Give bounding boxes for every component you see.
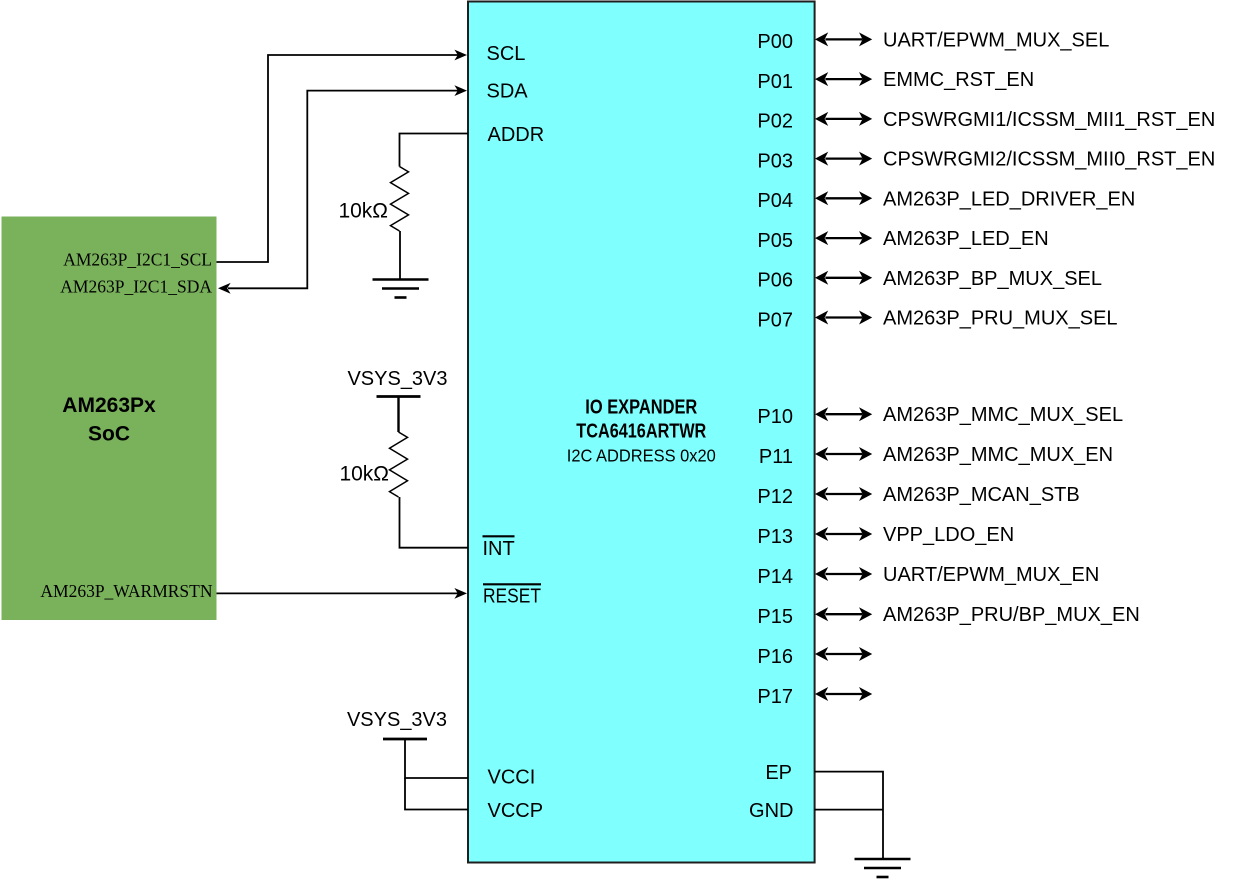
svg-text:10kΩ: 10kΩ xyxy=(339,463,389,486)
svg-text:SoC: SoC xyxy=(88,423,130,446)
svg-text:AM263P_LED_DRIVER_EN: AM263P_LED_DRIVER_EN xyxy=(883,188,1135,210)
svg-text:IO EXPANDER: IO EXPANDER xyxy=(585,397,697,419)
arrowhead into SoC (SDA) xyxy=(218,283,231,294)
bus arrow P11 xyxy=(815,447,872,461)
svg-text:AM263P_PRU/BP_MUX_EN: AM263P_PRU/BP_MUX_EN xyxy=(883,604,1140,626)
svg-text:P05: P05 xyxy=(757,230,793,252)
svg-text:UART/EPWM_MUX_SEL: UART/EPWM_MUX_SEL xyxy=(883,29,1109,51)
bus arrow P12 xyxy=(815,487,872,501)
svg-text:P01: P01 xyxy=(757,71,793,93)
resistor R2 10k pullup xyxy=(390,432,408,497)
svg-text:AM263P_I2C1_SDA: AM263P_I2C1_SDA xyxy=(60,276,212,296)
svg-text:P07: P07 xyxy=(757,309,793,331)
bus arrow P15 xyxy=(815,607,872,621)
svg-text:INT: INT xyxy=(483,538,515,560)
svg-text:VSYS_3V3: VSYS_3V3 xyxy=(347,368,447,390)
svg-text:P16: P16 xyxy=(757,646,793,668)
svg-text:VPP_LDO_EN: VPP_LDO_EN xyxy=(883,524,1014,546)
svg-text:AM263P_LED_EN: AM263P_LED_EN xyxy=(883,228,1049,250)
INT overline xyxy=(483,535,515,537)
svg-text:P03: P03 xyxy=(757,150,793,172)
svg-text:GND: GND xyxy=(749,800,793,822)
svg-text:EP: EP xyxy=(765,762,792,784)
power bar VSYS_3V3 (INT pullup) xyxy=(377,395,421,398)
svg-text:ADDR: ADDR xyxy=(488,124,545,146)
svg-text:P14: P14 xyxy=(757,566,793,588)
ground (ADDR pulldown) xyxy=(373,280,429,298)
bus arrow P05 xyxy=(815,231,872,245)
wire EP to ground xyxy=(815,772,883,859)
bus arrow P04 xyxy=(815,191,872,205)
arrowhead into RESET xyxy=(454,588,467,599)
bus arrow P16 xyxy=(815,647,872,661)
arrowhead into SDA xyxy=(454,85,467,96)
svg-text:10kΩ: 10kΩ xyxy=(338,200,388,223)
wire VSYS_3V3 to VCCI xyxy=(405,739,468,778)
svg-text:AM263P_PRU_MUX_SEL: AM263P_PRU_MUX_SEL xyxy=(883,308,1118,330)
svg-text:P00: P00 xyxy=(757,31,793,53)
svg-text:AM263P_MMC_MUX_SEL: AM263P_MMC_MUX_SEL xyxy=(883,404,1123,426)
wire R2 to U1 INT xyxy=(400,497,469,548)
svg-text:AM263P_BP_MUX_SEL: AM263P_BP_MUX_SEL xyxy=(883,268,1102,290)
wire SDA net: U1 SDA to SoC AM263P_I2C1_SDA xyxy=(228,91,458,289)
bus arrow P13 xyxy=(815,527,872,541)
svg-text:P02: P02 xyxy=(757,111,793,133)
wire SCL net: SoC AM263P_I2C1_SCL to U1 SCL xyxy=(217,55,459,262)
svg-text:AM263P_I2C1_SCL: AM263P_I2C1_SCL xyxy=(63,249,212,269)
wire VSYS_3V3 to VCCP xyxy=(405,778,468,810)
bus arrow P17 xyxy=(815,687,872,701)
RESET overline xyxy=(483,583,541,585)
svg-text:AM263P_MMC_MUX_EN: AM263P_MMC_MUX_EN xyxy=(883,444,1113,466)
SoC box AM263Px xyxy=(2,217,217,621)
svg-text:UART/EPWM_MUX_EN: UART/EPWM_MUX_EN xyxy=(883,564,1099,586)
IO expander U1 TCA6416ARTWR box xyxy=(468,2,815,863)
svg-text:P10: P10 xyxy=(757,406,793,428)
ground (EP/GND) xyxy=(855,859,911,877)
bus arrow P02 xyxy=(815,112,872,126)
svg-text:SCL: SCL xyxy=(487,43,526,65)
svg-text:CPSWRGMI2/ICSSM_MII0_RST_EN: CPSWRGMI2/ICSSM_MII0_RST_EN xyxy=(883,149,1215,171)
bus arrow P00 xyxy=(815,32,872,46)
wire R1 to ground xyxy=(399,231,401,280)
svg-text:AM263P_MCAN_STB: AM263P_MCAN_STB xyxy=(883,484,1080,506)
bus arrow P14 xyxy=(815,567,872,581)
power bar VSYS_3V3 (VCC) xyxy=(383,738,427,741)
svg-text:P06: P06 xyxy=(757,270,793,292)
svg-text:VSYS_3V3: VSYS_3V3 xyxy=(347,709,447,731)
svg-text:P11: P11 xyxy=(759,446,793,468)
svg-text:AM263Px: AM263Px xyxy=(62,394,156,417)
wire ADDR net: U1 ADDR to resistor R1 xyxy=(400,134,469,167)
wire RESET net: AM263P_WARMRSTN to U1 RESET xyxy=(217,592,459,594)
svg-text:RESET: RESET xyxy=(483,586,541,608)
arrowhead into SCL xyxy=(454,50,467,61)
svg-text:P04: P04 xyxy=(757,190,793,212)
svg-text:VCCI: VCCI xyxy=(488,767,536,789)
svg-text:CPSWRGMI1/ICSSM_MII1_RST_EN: CPSWRGMI1/ICSSM_MII1_RST_EN xyxy=(883,109,1215,131)
svg-text:TCA6416ARTWR: TCA6416ARTWR xyxy=(576,420,706,442)
svg-text:P12: P12 xyxy=(757,486,793,508)
bus arrow P07 xyxy=(815,311,872,325)
svg-text:P15: P15 xyxy=(757,606,793,628)
svg-text:I2C ADDRESS 0x20: I2C ADDRESS 0x20 xyxy=(567,445,716,465)
svg-text:VCCP: VCCP xyxy=(488,800,544,822)
svg-text:P13: P13 xyxy=(757,526,793,548)
bus arrow P03 xyxy=(815,152,872,166)
svg-text:P17: P17 xyxy=(757,686,793,708)
bus arrow P06 xyxy=(815,271,872,285)
bus arrow P01 xyxy=(815,72,872,86)
bus arrow P10 xyxy=(815,407,872,421)
wire GND to ground xyxy=(815,809,883,811)
wire VSYS_3V3 to R2 xyxy=(397,397,399,433)
svg-text:SDA: SDA xyxy=(487,81,529,103)
resistor R1 10k pulldown xyxy=(391,167,409,232)
svg-text:EMMC_RST_EN: EMMC_RST_EN xyxy=(883,69,1034,91)
svg-text:AM263P_WARMRSTN: AM263P_WARMRSTN xyxy=(40,581,212,601)
